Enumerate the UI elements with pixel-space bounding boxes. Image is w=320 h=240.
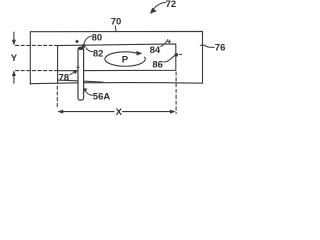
svg-text:78: 78 bbox=[59, 72, 70, 83]
svg-text:82: 82 bbox=[93, 48, 104, 59]
svg-text:56A: 56A bbox=[93, 91, 111, 102]
svg-text:70: 70 bbox=[111, 16, 122, 27]
svg-text:84: 84 bbox=[150, 45, 161, 56]
svg-text:86: 86 bbox=[152, 59, 163, 70]
svg-text:Y: Y bbox=[11, 53, 18, 64]
svg-text:76: 76 bbox=[215, 43, 226, 54]
svg-text:P: P bbox=[122, 54, 129, 65]
svg-text:80: 80 bbox=[92, 33, 103, 44]
svg-text:72: 72 bbox=[166, 0, 177, 10]
svg-text:X: X bbox=[116, 107, 123, 118]
